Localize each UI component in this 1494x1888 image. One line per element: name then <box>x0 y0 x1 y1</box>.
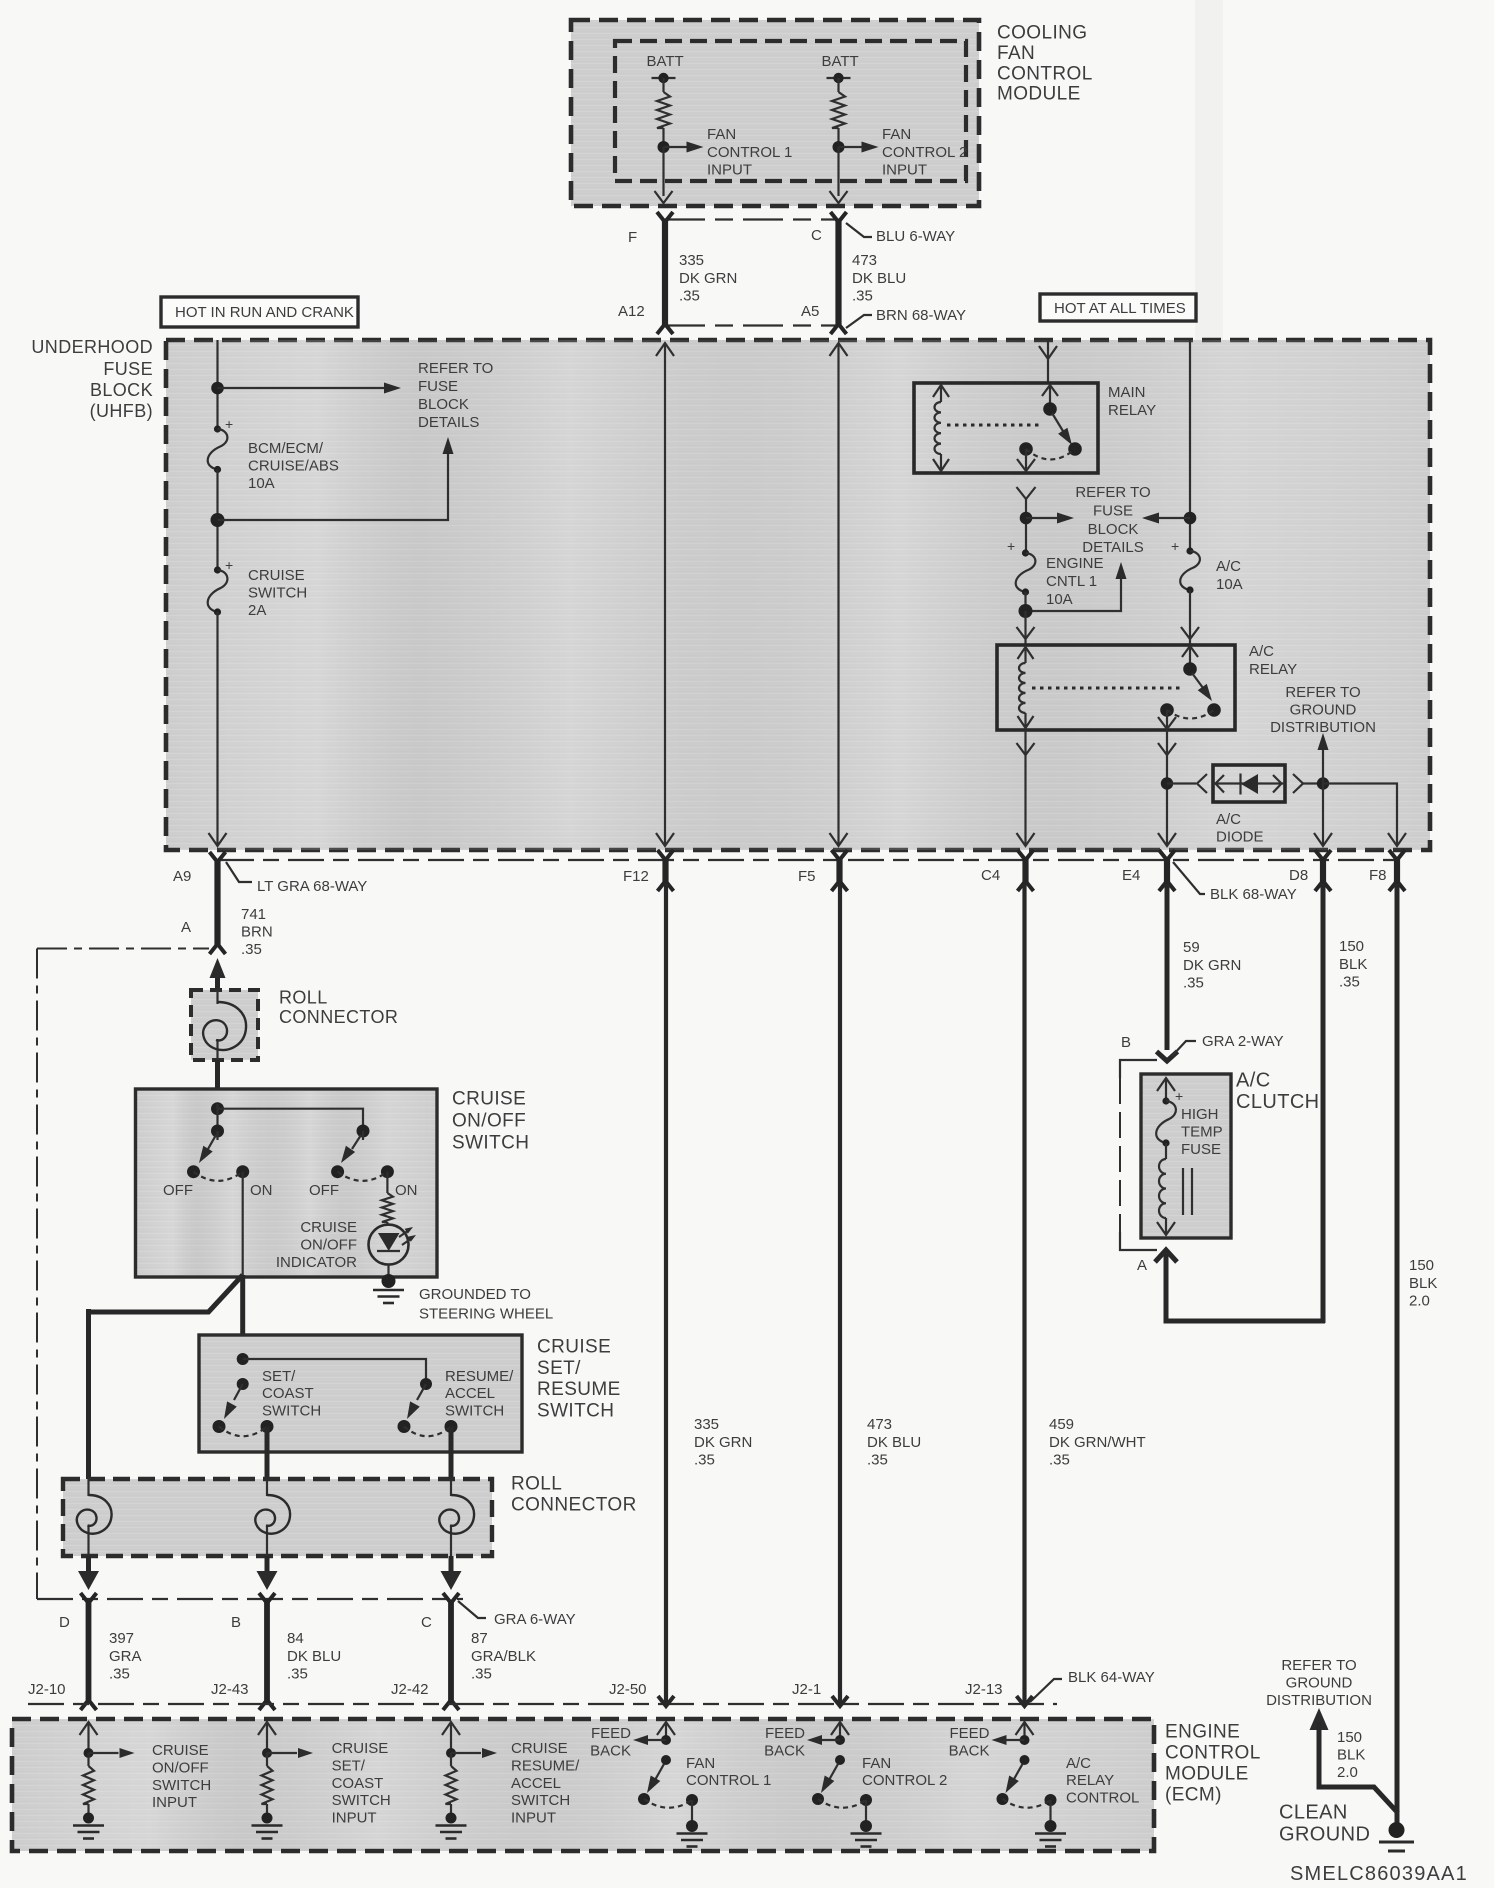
svg-text:SWITCH: SWITCH <box>332 1792 391 1809</box>
svg-text:473: 473 <box>852 252 877 269</box>
right switch arm (to OFF) <box>352 1135 361 1149</box>
roll connector (lower) dashed box <box>63 1479 492 1556</box>
roll connector coil symbol at x=267 <box>266 1479 268 1496</box>
svg-text:MODULE: MODULE <box>997 84 1081 105</box>
node switch feed <box>211 1102 224 1115</box>
main relay coil <box>940 385 942 402</box>
svg-text:J2-13: J2-13 <box>965 1681 1003 1698</box>
node right pole <box>357 1125 370 1138</box>
svg-text:10A: 10A <box>248 475 275 492</box>
svg-text:SWITCH: SWITCH <box>262 1402 321 1419</box>
resume/accel switch arm <box>417 1384 426 1400</box>
fuse BCM/ECM/CRUISE/ABS 10A <box>214 425 221 432</box>
svg-text:CLEAN: CLEAN <box>1279 1802 1348 1824</box>
svg-text:J2-43: J2-43 <box>211 1681 249 1698</box>
svg-text:SWITCH: SWITCH <box>537 1400 614 1421</box>
svg-text:SWITCH: SWITCH <box>445 1402 504 1419</box>
svg-text:J2-10: J2-10 <box>28 1681 66 1698</box>
svg-text:CONTROL: CONTROL <box>1066 1789 1139 1806</box>
connector BLU 6-WAY dashed line (top) <box>665 218 839 220</box>
svg-text:SET/: SET/ <box>332 1757 366 1774</box>
svg-text:10A: 10A <box>1216 576 1243 593</box>
ECM driver ground <box>691 1800 693 1826</box>
svg-text:FUSE: FUSE <box>1181 1141 1221 1158</box>
svg-text:DIODE: DIODE <box>1216 829 1264 846</box>
svg-text:BRN: BRN <box>241 924 273 941</box>
wire 335 DK GRN (F12 to J2-50) <box>664 884 668 1703</box>
wire a/c relay coil out to C4 <box>1024 730 1026 845</box>
steering wheel boundary dash-dot line (vertical) <box>36 949 38 1600</box>
svg-text:+: + <box>225 557 233 573</box>
svg-text:FUSE: FUSE <box>418 378 458 395</box>
svg-text:COAST: COAST <box>262 1385 314 1402</box>
svg-text:+: + <box>1171 538 1179 554</box>
svg-text:+: + <box>1175 1088 1183 1104</box>
connector pin bar B <box>264 1600 270 1703</box>
a/c clutch coil <box>1165 1143 1167 1159</box>
thick wire ON down to set/resume switch <box>240 1275 245 1338</box>
ECM input ground <box>83 1813 94 1824</box>
main relay box <box>914 383 1098 473</box>
svg-text:A/C: A/C <box>1249 643 1274 660</box>
node resume pole <box>420 1378 432 1390</box>
svg-text:J2-50: J2-50 <box>609 1681 647 1698</box>
svg-text:459: 459 <box>1049 1416 1074 1433</box>
leader GRA 2-WAY <box>1172 1041 1196 1056</box>
svg-text:ENGINE: ENGINE <box>1165 1722 1240 1743</box>
a/c clutch connector bracket <box>1120 1060 1157 1078</box>
leader BLU 6-WAY <box>846 223 872 237</box>
right contact OFF <box>331 1165 344 1178</box>
svg-text:2.0: 2.0 <box>1409 1293 1430 1310</box>
connector pin bar C <box>448 1600 454 1703</box>
a/c relay actuation dotted link <box>1032 687 1180 690</box>
svg-text:RESUME/: RESUME/ <box>511 1757 580 1774</box>
svg-text:RESUME/: RESUME/ <box>445 1368 514 1385</box>
svg-text:COOLING: COOLING <box>997 23 1087 44</box>
svg-text:397: 397 <box>109 1630 134 1647</box>
wire feed to resume switch <box>243 1359 426 1384</box>
svg-text:SET/: SET/ <box>537 1358 581 1379</box>
wire node to right switch <box>218 1109 364 1131</box>
svg-text:.35: .35 <box>1049 1452 1070 1469</box>
wire 150 BLK (D8 down) <box>1321 884 1326 1323</box>
svg-text:DK BLU: DK BLU <box>852 270 906 287</box>
svg-text:F: F <box>628 229 637 246</box>
ECM driver FAN CONTROL 1 feed arrow <box>665 1722 667 1740</box>
ECM input pull resistor <box>266 1753 268 1766</box>
svg-text:ON: ON <box>250 1182 273 1199</box>
svg-text:MODULE: MODULE <box>1165 1764 1249 1785</box>
svg-text:RELAY: RELAY <box>1066 1772 1114 1789</box>
svg-text:FUSE: FUSE <box>1093 502 1133 519</box>
arrow to FAN CONTROL 2 INPUT label <box>839 146 865 148</box>
svg-text:GROUND: GROUND <box>1286 1674 1353 1691</box>
svg-text:CONTROL 1: CONTROL 1 <box>686 1772 771 1789</box>
cruise set/resume switch box <box>199 1335 522 1452</box>
svg-text:SMELC86039AA1: SMELC86039AA1 <box>1290 1863 1468 1885</box>
svg-text:CONNECTOR: CONNECTOR <box>279 1007 398 1027</box>
connector pin bar D8 <box>1320 857 1326 884</box>
a/c clutch box <box>1141 1074 1231 1238</box>
arrow to FAN CONTROL 1 INPUT label <box>664 146 690 148</box>
wire 59 DK GRN (E4 to A/C clutch) <box>1165 884 1170 1050</box>
svg-text:B: B <box>231 1614 241 1631</box>
svg-text:B: B <box>1121 1034 1131 1051</box>
svg-text:FAN: FAN <box>686 1755 715 1772</box>
svg-text:HIGH: HIGH <box>1181 1106 1219 1123</box>
wire 150 BLK 2.0 (F8 down) <box>1395 884 1400 1814</box>
svg-text:RELAY: RELAY <box>1108 402 1156 419</box>
svg-text:GROUND: GROUND <box>1279 1824 1370 1846</box>
svg-text:A: A <box>181 919 191 936</box>
svg-text:.35: .35 <box>694 1452 715 1469</box>
svg-text:150: 150 <box>1339 938 1364 955</box>
svg-text:CRUISE: CRUISE <box>537 1337 611 1358</box>
a/c relay switch <box>1189 647 1191 665</box>
svg-text:.35: .35 <box>109 1666 130 1683</box>
wire fuse1 to fuse2 <box>216 470 218 571</box>
svg-text:BLK 68-WAY: BLK 68-WAY <box>1210 886 1297 903</box>
svg-text:REFER TO: REFER TO <box>418 360 493 377</box>
set/coast switch arm <box>234 1384 243 1400</box>
svg-text:INPUT: INPUT <box>332 1810 377 1827</box>
left contact ON <box>236 1165 249 1178</box>
svg-text:LT GRA 68-WAY: LT GRA 68-WAY <box>257 878 367 895</box>
fuse CRUISE SWITCH 2A <box>214 566 221 573</box>
wire left pole stub <box>216 1131 218 1140</box>
leader LT GRA 68-WAY <box>226 862 252 882</box>
svg-text:DK BLU: DK BLU <box>867 1434 921 1451</box>
connector pin bar D <box>86 1600 92 1703</box>
svg-text:REFER TO: REFER TO <box>1281 1657 1356 1674</box>
svg-text:ON/OFF: ON/OFF <box>452 1111 526 1132</box>
ECM input node <box>446 1748 456 1758</box>
clean ground symbol <box>1395 1812 1400 1826</box>
leader GRA 6-WAY <box>458 1601 486 1618</box>
svg-text:DISTRIBUTION: DISTRIBUTION <box>1270 719 1376 736</box>
left switch dashed throw arc <box>194 1172 243 1181</box>
svg-text:INPUT: INPUT <box>882 162 927 179</box>
svg-text:(ECM): (ECM) <box>1165 1785 1222 1806</box>
wire hot at all times to main relay <box>1047 340 1049 383</box>
resistor (fan control 1 pull-up) <box>657 92 670 128</box>
a/c clutch output arrow <box>1165 1218 1167 1234</box>
ECM input CRUISE ON/OFF arrow <box>87 1722 89 1753</box>
svg-text:FEED: FEED <box>949 1725 989 1742</box>
svg-text:HOT IN RUN AND CRANK: HOT IN RUN AND CRANK <box>175 304 354 321</box>
svg-text:SWITCH: SWITCH <box>248 585 307 602</box>
ECM feedback node <box>1020 1735 1030 1745</box>
underhood fuse block (UHFB) dashed box <box>166 340 1430 850</box>
arrow refer to fuse details (left, from A/C column) <box>1158 517 1190 519</box>
svg-text:ROLL: ROLL <box>279 988 328 1008</box>
wire resistor to node 1 <box>662 128 664 147</box>
node set switch feed <box>237 1353 249 1365</box>
svg-text:FEED: FEED <box>591 1725 631 1742</box>
svg-text:FUSE: FUSE <box>103 359 153 379</box>
connector pin bar C / A5 <box>835 219 841 327</box>
arrow refer to ground distribution (inside UHFB) <box>1322 748 1324 784</box>
thick wire branch to column D <box>89 1275 243 1312</box>
svg-text:84: 84 <box>287 1630 304 1647</box>
steering wheel boundary dash-dot line (horizontal) <box>37 948 209 950</box>
arrow refer to fuse details (right, from C4 column) <box>1026 517 1058 519</box>
svg-text:GRA/BLK: GRA/BLK <box>471 1648 536 1665</box>
svg-text:STEERING WHEEL: STEERING WHEEL <box>419 1306 553 1323</box>
node FAN CONTROL 2 INPUT <box>833 141 845 153</box>
svg-text:E4: E4 <box>1122 867 1140 884</box>
svg-text:CRUISE: CRUISE <box>248 567 305 584</box>
ground (steering wheel) <box>382 1274 396 1288</box>
wire cruise switch fuse to A9 <box>216 612 218 844</box>
svg-text:A9: A9 <box>173 868 191 885</box>
svg-text:.35: .35 <box>287 1666 308 1683</box>
svg-text:COAST: COAST <box>332 1775 384 1792</box>
wire 459 DK GRN/WHT (C4 to J2-13) <box>1022 884 1026 1703</box>
svg-text:OFF: OFF <box>163 1182 193 1199</box>
arrow refer to fuse block details (left) <box>218 387 386 389</box>
ECM driver ground <box>865 1800 867 1826</box>
thick wire clutch to D8 <box>1166 1254 1325 1321</box>
svg-text:BLOCK: BLOCK <box>90 380 153 400</box>
svg-text:C: C <box>421 1614 432 1631</box>
svg-text:SWITCH: SWITCH <box>452 1133 529 1154</box>
svg-text:DETAILS: DETAILS <box>1082 539 1143 556</box>
svg-text:DK BLU: DK BLU <box>287 1648 341 1665</box>
svg-text:INPUT: INPUT <box>707 162 752 179</box>
svg-text:INPUT: INPUT <box>511 1810 556 1827</box>
svg-text:150: 150 <box>1337 1729 1362 1746</box>
arrow FEED BACK <box>1005 1739 1025 1741</box>
svg-text:ACCEL: ACCEL <box>445 1385 495 1402</box>
connector pin bar E4 <box>1164 857 1170 884</box>
thick arrow below roll connector x=88.5 <box>86 1556 91 1572</box>
svg-text:F12: F12 <box>623 868 649 885</box>
left contact OFF <box>187 1165 200 1178</box>
svg-text:D: D <box>59 1614 70 1631</box>
svg-text:DK GRN/WHT: DK GRN/WHT <box>1049 1434 1146 1451</box>
node diode left junction <box>1161 777 1173 789</box>
leader BLK 64-WAY <box>1030 1679 1062 1702</box>
ECM input node <box>262 1748 272 1758</box>
ECM driver switch A/C RELAY CONTROL <box>1020 1755 1030 1765</box>
svg-text:.35: .35 <box>241 941 262 958</box>
svg-text:GROUNDED TO: GROUNDED TO <box>419 1286 531 1303</box>
thick arrow refer to ground distribution <box>1310 1708 1329 1730</box>
wire 473 DK BLU (F5 to J2-1) <box>838 884 842 1703</box>
ECM driver FAN CONTROL 2 feed arrow <box>839 1722 841 1740</box>
node refer arrow (C4 column) <box>1020 512 1033 525</box>
wire a/c fuse to a/c relay switch <box>1189 590 1191 645</box>
svg-text:CONTROL 2: CONTROL 2 <box>882 144 967 161</box>
wire resistor to node 2 <box>837 128 839 147</box>
roll connector coil symbol at x=451 <box>450 1479 452 1496</box>
ECM feedback node <box>661 1735 671 1745</box>
a/c relay box <box>997 645 1235 730</box>
ECM input arrow to label <box>267 1752 297 1754</box>
svg-text:INPUT: INPUT <box>152 1794 197 1811</box>
svg-text:CRUISE: CRUISE <box>332 1740 389 1757</box>
diode element <box>1213 782 1285 784</box>
svg-text:J2-42: J2-42 <box>391 1681 429 1698</box>
svg-text:BLK: BLK <box>1409 1275 1437 1292</box>
ECM input CRUISE SET/ arrow <box>266 1722 268 1753</box>
right contact ON <box>381 1165 394 1178</box>
svg-text:.35: .35 <box>867 1452 888 1469</box>
cooling fan control module outer dashed box <box>571 20 979 206</box>
connector pin bar F12 <box>662 857 668 884</box>
svg-text:CRUISE: CRUISE <box>300 1219 357 1236</box>
connector pin bar C4 <box>1022 857 1028 884</box>
connector BLK 64-WAY dashed line <box>28 1703 1057 1705</box>
svg-text:A12: A12 <box>618 303 645 320</box>
arrow up refer to fuse block details (left riser) <box>218 452 449 520</box>
svg-text:DK GRN: DK GRN <box>1183 957 1241 974</box>
wire F12 pass-through <box>664 343 666 845</box>
roll connector (upper) dashed box <box>191 990 258 1060</box>
wire a/c relay switch out to E4 / diode node <box>1166 730 1168 845</box>
right switch dashed throw arc <box>338 1172 388 1181</box>
svg-text:GRA 2-WAY: GRA 2-WAY <box>1202 1033 1284 1050</box>
svg-text:CRUISE/ABS: CRUISE/ABS <box>248 458 339 475</box>
wire LED to ground <box>387 1264 389 1281</box>
ECM input node <box>84 1748 94 1758</box>
svg-text:BACK: BACK <box>949 1742 990 1759</box>
svg-text:GRA: GRA <box>109 1648 142 1665</box>
svg-text:59: 59 <box>1183 939 1200 956</box>
svg-text:UNDERHOOD: UNDERHOOD <box>31 337 153 357</box>
node FAN CONTROL 1 INPUT <box>658 141 670 153</box>
connector pin bar A9 <box>214 859 220 947</box>
svg-text:A: A <box>1137 1257 1147 1274</box>
connector GRA 6-WAY dashed line <box>37 1598 463 1600</box>
svg-text:C4: C4 <box>981 867 1000 884</box>
connector chevron left of diode <box>1197 774 1207 793</box>
svg-text:BRN 68-WAY: BRN 68-WAY <box>876 307 966 324</box>
svg-text:(UHFB): (UHFB) <box>90 401 153 421</box>
wire fan control 2 output down <box>837 147 839 196</box>
thick arrow wire into roll connector <box>215 974 220 998</box>
wire right pole stub <box>362 1131 364 1140</box>
ECM input pull resistor <box>87 1753 89 1766</box>
connector pin bar F8 <box>1394 857 1400 884</box>
wire node to diode <box>1167 782 1196 784</box>
ECM input CRUISE RESUME/ arrow <box>450 1722 452 1753</box>
svg-text:+: + <box>1007 538 1015 554</box>
svg-text:CONTROL: CONTROL <box>997 63 1093 84</box>
svg-text:BLU 6-WAY: BLU 6-WAY <box>876 228 955 245</box>
svg-text:GROUND: GROUND <box>1290 702 1357 719</box>
ECM driver switch FAN CONTROL 1 <box>661 1755 671 1765</box>
svg-text:BATT: BATT <box>822 53 859 70</box>
label box HOT AT ALL TIMES <box>1040 294 1196 321</box>
label box HOT IN RUN AND CRANK <box>161 297 358 327</box>
svg-text:DETAILS: DETAILS <box>418 414 479 431</box>
wire junction to F8 column <box>1323 784 1397 846</box>
connector chevron below clutch <box>1155 1250 1177 1262</box>
svg-text:CONTROL 2: CONTROL 2 <box>862 1772 947 1789</box>
svg-text:INDICATOR: INDICATOR <box>276 1254 357 1271</box>
svg-text:BATT: BATT <box>647 53 684 70</box>
svg-text:BLOCK: BLOCK <box>1088 521 1139 538</box>
svg-text:BLK 64-WAY: BLK 64-WAY <box>1068 1669 1155 1686</box>
left switch arm (to OFF) <box>208 1135 216 1149</box>
engine control module dashed box <box>12 1719 1154 1851</box>
svg-text:CRUISE: CRUISE <box>511 1740 568 1757</box>
leader BRN 68-WAY <box>846 315 872 328</box>
svg-text:DK GRN: DK GRN <box>679 270 737 287</box>
svg-text:CLUTCH: CLUTCH <box>1236 1091 1320 1113</box>
svg-text:87: 87 <box>471 1630 488 1647</box>
thick arrow below roll connector x=451 <box>449 1556 454 1572</box>
wire fuse to a/c relay coil <box>1024 611 1026 645</box>
svg-text:F5: F5 <box>798 868 816 885</box>
svg-text:741: 741 <box>241 906 266 923</box>
connector chevron below main relay <box>1017 487 1036 499</box>
arrow FEED BACK <box>646 1739 666 1741</box>
a/c relay coil <box>1024 647 1026 663</box>
svg-text:MAIN: MAIN <box>1108 384 1146 401</box>
svg-text:A/C: A/C <box>1216 811 1241 828</box>
node below engine cntl fuse <box>1019 604 1033 618</box>
wire main relay to engine cntl fuse <box>1025 499 1027 553</box>
node feed to fuse details arrow <box>211 382 224 395</box>
svg-text:CRUISE: CRUISE <box>452 1089 526 1110</box>
ECM input arrow to label <box>89 1752 119 1754</box>
thick wire set/coast output <box>265 1427 270 1482</box>
svg-text:.35: .35 <box>1183 975 1204 992</box>
ECM driver ground <box>1049 1800 1051 1826</box>
connector pin bar F5 <box>836 857 842 884</box>
thick wire resume/accel output <box>449 1427 454 1482</box>
leader BLK 68-WAY <box>1173 862 1205 894</box>
svg-text:REFER TO: REFER TO <box>1075 484 1150 501</box>
svg-text:CRUISE: CRUISE <box>152 1742 209 1759</box>
svg-text:A/C: A/C <box>1216 558 1241 575</box>
svg-text:DK GRN: DK GRN <box>694 1434 752 1451</box>
svg-text:FAN: FAN <box>707 126 736 143</box>
connector BRN 68-WAY dashed line (bottom) <box>665 324 839 326</box>
node refer arrow (A/C column) <box>1184 512 1197 525</box>
svg-text:ON: ON <box>395 1182 418 1199</box>
svg-text:ON/OFF: ON/OFF <box>300 1237 357 1254</box>
svg-text:.35: .35 <box>471 1666 492 1683</box>
node set pole <box>237 1378 249 1390</box>
svg-text:RESUME: RESUME <box>537 1379 621 1400</box>
svg-text:GRA 6-WAY: GRA 6-WAY <box>494 1611 576 1628</box>
svg-text:150: 150 <box>1409 1257 1434 1274</box>
svg-text:ENGINE: ENGINE <box>1046 555 1104 572</box>
svg-text:SWITCH: SWITCH <box>152 1777 211 1794</box>
node left pole <box>211 1125 224 1138</box>
svg-text:FAN: FAN <box>882 126 911 143</box>
svg-text:FAN: FAN <box>997 43 1035 64</box>
svg-text:BLOCK: BLOCK <box>418 396 469 413</box>
ECM driver switch FAN CONTROL 2 <box>835 1755 845 1765</box>
svg-text:BLK: BLK <box>1339 956 1367 973</box>
LED cruise on/off indicator <box>369 1225 409 1265</box>
svg-text:A5: A5 <box>801 303 819 320</box>
svg-text:BACK: BACK <box>764 1742 805 1759</box>
thick wire roll connector to cruise switch <box>215 1060 220 1104</box>
node D8 junction <box>1317 777 1329 789</box>
connector chevron right of diode <box>1293 774 1303 793</box>
svg-text:HOT AT ALL TIMES: HOT AT ALL TIMES <box>1054 300 1186 317</box>
svg-text:10A: 10A <box>1046 591 1073 608</box>
a/c clutch plates <box>1182 1168 1184 1215</box>
svg-text:CONTROL 1: CONTROL 1 <box>707 144 792 161</box>
